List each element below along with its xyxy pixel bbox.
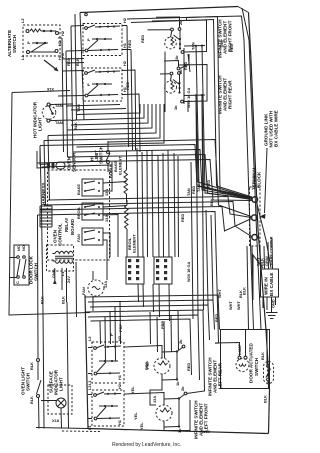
svg-text:PRP: PRP	[144, 362, 149, 370]
connector: plug P2	[154, 257, 172, 284]
svg-text:RED: RED	[180, 214, 185, 222]
wire: terminal block down wires	[247, 246, 249, 330]
wire: drops to bottom left boxes	[99, 321, 102, 344]
svg-text:H1: H1	[57, 54, 62, 60]
svg-text:BAKE: BAKE	[76, 184, 81, 195]
svg-text:LEFT FRONT: LEFT FRONT	[204, 403, 209, 432]
hi limit switch	[90, 145, 114, 172]
wire: below box2 horizontals	[66, 105, 120, 107]
surface indicator light	[41, 369, 72, 428]
svg-text:BLK: BLK	[73, 122, 78, 130]
svg-text:Rendered by LeadVenture, Inc.: Rendered by LeadVenture, Inc.	[112, 442, 181, 448]
wire: mid horizontals going right	[73, 150, 252, 199]
ground symbol	[266, 312, 278, 314]
svg-text:1b: 1b	[175, 381, 180, 386]
label: ground link note	[264, 110, 279, 213]
relay: broil	[82, 203, 103, 220]
svg-text:2b: 2b	[180, 386, 185, 391]
wire: bx cable box lead	[253, 255, 263, 300]
svg-text:WHT: WHT	[217, 289, 222, 298]
wire in bx cable box	[236, 236, 279, 318]
svg-text:1b: 1b	[173, 105, 178, 110]
wire: lower horizontal bundle	[85, 295, 220, 330]
transformer	[47, 245, 74, 290]
svg-text:X18: X18	[52, 418, 60, 423]
svg-text:YEL: YEL	[133, 412, 138, 420]
wire: top run to right border	[127, 16, 254, 330]
svg-text:BLK: BLK	[29, 362, 34, 370]
relay: fan	[82, 228, 103, 245]
motor: fan (dashed circle)	[88, 280, 104, 296]
svg-text:LEFT REAR: LEFT REAR	[218, 363, 223, 389]
alternate switch box	[7, 18, 65, 72]
wire: hot light wires join	[71, 103, 73, 105]
ground link arrow	[260, 214, 266, 219]
door lock switch	[14, 245, 39, 285]
wire: alternate switch leads	[58, 37, 62, 39]
svg-text:ELEMENT: ELEMENT	[132, 234, 137, 253]
fan motor	[81, 280, 108, 296]
wire: mid horizontal 5	[108, 140, 251, 217]
label: infinite switch right rear	[218, 75, 233, 114]
switch: door actuated (dashed capsule)	[264, 362, 274, 384]
wire: bottom border	[88, 429, 269, 434]
svg-text:H1: H1	[117, 374, 122, 380]
wire: left exits of top boxes	[71, 25, 84, 28]
note box: wire in bx cable	[261, 269, 279, 297]
svg-text:RED: RED	[127, 40, 132, 48]
svg-text:BLK: BLK	[260, 352, 265, 360]
lamp + door actuated switch box	[215, 330, 274, 404]
wire: links between top switch boxes	[63, 58, 85, 61]
wire: left column verticals top	[62, 38, 64, 152]
svg-text:C: C	[15, 281, 20, 284]
wire: unit exits down	[164, 52, 166, 105]
wire: 2b lead	[177, 67, 180, 70]
broil element	[125, 200, 137, 253]
svg-text:BX CABLE: BX CABLE	[269, 273, 274, 296]
board: relay board (dashed)	[48, 170, 110, 260]
svg-text:H1: H1	[117, 419, 122, 425]
box: oven lamp and door switch	[221, 330, 270, 389]
svg-text:YEL: YEL	[130, 386, 135, 394]
svg-text:YEL: YEL	[139, 422, 144, 430]
svg-text:1b: 1b	[174, 55, 179, 60]
element: left rear surface element	[154, 358, 170, 374]
svg-text:X16: X16	[46, 87, 54, 92]
terminal L2	[26, 30, 29, 33]
connector: plug P1	[126, 257, 144, 284]
svg-text:RED: RED	[229, 44, 234, 52]
svg-text:H2: H2	[117, 335, 122, 341]
wire: mid-right verticals down to lower bundle	[191, 162, 193, 319]
svg-text:LIGHT: LIGHT	[38, 117, 43, 131]
bake element	[113, 156, 128, 200]
wire: door lock stubs	[10, 257, 17, 259]
connector grid 1	[126, 257, 144, 284]
svg-text:LIGHT: LIGHT	[59, 377, 64, 391]
left rear/front infinite switch boxes (bottom)	[92, 335, 124, 383]
switch box: left front dashed	[92, 390, 124, 426]
wire: bottom unit links	[124, 346, 162, 353]
wire: left border lower	[85, 295, 88, 429]
arrow to diagram	[44, 60, 57, 70]
oven light switch	[21, 359, 42, 405]
bottom middle infinite switch units	[145, 339, 191, 386]
wire: H2 exit box1	[122, 25, 127, 27]
switch box: alternate switch (dashed)	[23, 25, 60, 56]
wire: left long verticals	[48, 136, 50, 201]
hot indicator light	[33, 101, 72, 138]
wire: sensor leads	[40, 146, 47, 165]
right-top infinite switch unit 1	[148, 17, 207, 60]
wire: top border	[80, 7, 238, 13]
svg-text:BLK: BLK	[238, 290, 243, 298]
svg-text:BLK: BLK	[263, 395, 268, 403]
svg-text:13A: 13A	[104, 189, 109, 196]
svg-text:P: P	[86, 38, 91, 41]
wire: grids down to lower bundle	[137, 284, 140, 302]
svg-text:W30 18 GA: W30 18 GA	[186, 261, 191, 282]
connector grid 2	[154, 257, 172, 284]
switch box: left rear dashed	[92, 342, 124, 383]
svg-text:P: P	[26, 41, 31, 44]
label: infinite switch right front	[218, 19, 233, 58]
svg-text:RED: RED	[186, 363, 191, 371]
wire: door switch leads	[266, 330, 268, 365]
wire: far left vertical	[9, 93, 90, 316]
wire: bottom box left exits	[88, 347, 92, 349]
svg-text:ELEMENT: ELEMENT	[118, 156, 123, 175]
switch blade	[31, 43, 45, 52]
wire: leads into box	[259, 246, 262, 269]
wire: left border upper	[80, 13, 84, 121]
svg-text:BX CABLE WIRE: BX CABLE WIRE	[274, 110, 279, 147]
svg-text:FAN: FAN	[76, 234, 81, 242]
svg-text:WHT: WHT	[228, 301, 233, 310]
wire: long verticals from right units to terminal fan	[196, 46, 251, 197]
svg-text:BLK: BLK	[209, 198, 214, 206]
INFINITE SWITCH dashed box 2	[83, 60, 127, 101]
svg-text:RED: RED	[125, 82, 130, 90]
svg-text:H2: H2	[60, 30, 65, 36]
svg-text:RED: RED	[206, 180, 211, 188]
svg-text:H2: H2	[57, 40, 62, 46]
INFINITE SWITCH dashed box 1 (top left)	[83, 17, 127, 55]
wire: staircase from right units	[77, 104, 141, 115]
connector: harness pins	[40, 206, 52, 227]
svg-text:GND: GND	[271, 299, 276, 308]
svg-text:TAN: TAN	[219, 40, 224, 48]
wire: H1 exit box2	[122, 94, 140, 112]
wire: 2b lead	[156, 17, 180, 28]
svg-text:BLK: BLK	[40, 296, 45, 304]
wire: lower exits joining bundle	[135, 112, 137, 150]
wire: leads below box to ground	[262, 297, 264, 308]
svg-text:13A: 13A	[103, 281, 108, 288]
svg-text:SWITCH: SWITCH	[12, 34, 17, 53]
wire: lamp leads	[215, 343, 240, 357]
svg-text:H2: H2	[122, 17, 127, 23]
svg-text:H2: H2	[122, 60, 127, 66]
svg-text:BROIL: BROIL	[76, 206, 81, 219]
wire: left link	[148, 29, 171, 31]
switch: door lock	[14, 245, 29, 285]
wire: inner right border	[242, 8, 261, 330]
wire: red diagonal	[188, 54, 190, 72]
svg-text:RED: RED	[140, 35, 145, 43]
svg-text:P: P	[109, 333, 114, 336]
wire: unit2 loop	[179, 65, 207, 102]
wire: transformer leads down	[66, 268, 68, 302]
svg-text:BOARD: BOARD	[70, 219, 75, 235]
wire: drops to bottom units	[149, 312, 152, 344]
right-top infinite switch unit 2	[160, 54, 207, 110]
wire: fan leads	[92, 271, 94, 280]
svg-text:WIRE IN: WIRE IN	[264, 276, 269, 295]
wire: H2 exit box2	[122, 70, 136, 112]
svg-text:BLOCK: BLOCK	[257, 171, 262, 188]
wire: hi limit stubs	[107, 141, 109, 151]
wire: horizontals above relay board	[38, 161, 109, 163]
svg-text:WHT: WHT	[236, 301, 241, 310]
terminal H1	[55, 50, 58, 53]
terminal L1	[27, 51, 30, 54]
wire: vertical px126.5	[127, 26, 129, 148]
svg-text:H2: H2	[117, 383, 122, 389]
lamp: oven lamp (dashed circle)	[236, 359, 249, 372]
element: broil	[125, 205, 129, 229]
svg-text:RELAY: RELAY	[64, 217, 69, 232]
svg-text:SWITCH: SWITCH	[254, 357, 259, 376]
wire: contact column	[179, 31, 181, 50]
oven sensor	[47, 152, 77, 172]
wire: verticals relay area to connector grids	[137, 148, 138, 257]
switch box: infinite switch left-top	[83, 24, 122, 56]
RELAY BOARD	[40, 170, 110, 260]
transformer: low voltage	[47, 245, 74, 271]
wire: unit1 loop	[180, 20, 207, 52]
element: left front surface element	[156, 405, 172, 421]
svg-text:13A: 13A	[152, 396, 157, 403]
svg-text:BLK: BLK	[61, 296, 66, 304]
wire: relay to elements	[103, 182, 127, 184]
wire: bottom dashed segment	[62, 430, 100, 433]
svg-text:FAN: FAN	[81, 287, 86, 295]
wire: top-right corner stub	[238, 7, 249, 13]
wire: second top run	[131, 20, 252, 198]
heater element squiggle	[30, 29, 41, 32]
svg-text:CONTROL: CONTROL	[58, 223, 63, 246]
svg-text:RED: RED	[214, 314, 219, 322]
wire: vertical px130.5	[131, 50, 133, 151]
switch box: infinite switch left-bottom	[83, 68, 122, 101]
svg-text:DOOR ACTUATED: DOOR ACTUATED	[249, 343, 254, 383]
svg-text:TAN: TAN	[191, 42, 196, 50]
wire: contact column	[179, 75, 181, 94]
element: right front surface element (dashed circle)	[165, 37, 177, 49]
svg-text:13A: 13A	[104, 215, 109, 222]
element: right rear surface element (dashed circle)	[165, 81, 177, 93]
wire: X16 line	[12, 91, 70, 93]
left bottom labels	[208, 357, 223, 396]
TERMINAL BLOCK	[250, 166, 266, 246]
svg-text:P: P	[86, 83, 91, 86]
wire: left link	[160, 73, 171, 75]
svg-text:W10: W10	[202, 429, 210, 434]
svg-text:RIGHT REAR: RIGHT REAR	[228, 80, 233, 109]
wire: right mid horizontals to terminal 2/3	[48, 197, 251, 218]
wire: 2b stub unit2	[180, 54, 189, 69]
svg-text:BLK: BLK	[29, 396, 34, 404]
svg-text:SWITCH: SWITCH	[26, 372, 31, 391]
relay: bake	[82, 179, 103, 196]
wire: H1 exit box1	[122, 49, 131, 51]
wire: outer right border	[249, 13, 270, 434]
wire: third top run	[187, 17, 253, 199]
svg-text:NO: NO	[21, 245, 26, 251]
